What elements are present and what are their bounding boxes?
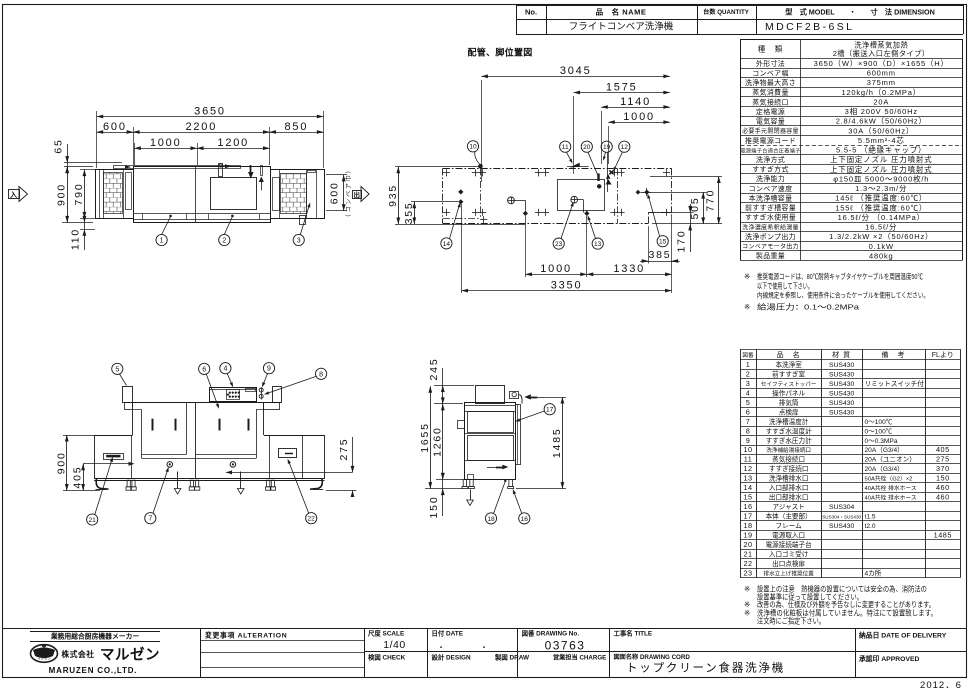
svg-text:20: 20 <box>743 540 752 549</box>
plan view: balloon 15 <box>647 194 668 247</box>
svg-text:電源接続端子台: 電源接続端子台 <box>766 540 813 549</box>
top view: balloon 1 <box>156 215 172 246</box>
svg-text:1330: 1330 <box>613 263 645 275</box>
svg-text:40A共栓 排水ホース: 40A共栓 排水ホース <box>865 494 917 502</box>
front elevation: balloon 7 <box>145 467 169 524</box>
top view: dimensions 600 2200 850 <box>97 121 324 165</box>
plan view: drain/utility marks <box>458 188 651 216</box>
svg-text:電源取入口: 電源取入口 <box>772 530 805 539</box>
svg-text:蒸気消費量: 蒸気消費量 <box>752 88 789 97</box>
svg-text:11: 11 <box>562 144 569 151</box>
side view: balloon 17 <box>515 404 555 422</box>
plan view: dimension 1000 top <box>608 111 670 164</box>
svg-text:9: 9 <box>746 436 751 445</box>
svg-text:製図 DRAW: 製図 DRAW <box>494 652 530 661</box>
svg-text:MARUZEN CO.,LTD.: MARUZEN CO.,LTD. <box>49 666 138 675</box>
svg-text:洗浄方式: 洗浄方式 <box>756 155 785 164</box>
svg-text:SUS304: SUS304 <box>829 504 855 511</box>
front elevation: balloon 4 <box>220 363 233 388</box>
svg-text:3: 3 <box>297 238 301 245</box>
svg-text:355: 355 <box>403 201 415 224</box>
svg-text:洗浄槽温度計: 洗浄槽温度計 <box>769 417 809 426</box>
svg-text:21: 21 <box>89 517 97 524</box>
svg-text:設計 DESIGN: 設計 DESIGN <box>432 652 471 661</box>
svg-text:18: 18 <box>743 521 752 530</box>
svg-text:8: 8 <box>746 426 751 435</box>
svg-text:13: 13 <box>743 474 752 483</box>
svg-text:6: 6 <box>746 407 751 416</box>
svg-text:5: 5 <box>115 366 119 373</box>
svg-text:20A（G3/4）: 20A（G3/4） <box>865 446 904 454</box>
front elevation: drain arrows <box>174 472 244 495</box>
side view: steam inlet arrow <box>524 394 544 399</box>
svg-text:入口部排水口: 入口部排水口 <box>769 483 809 492</box>
svg-text:1485: 1485 <box>934 530 952 539</box>
plan view: balloon 23 <box>553 202 573 250</box>
svg-text:（コンベア巾）: （コンベア巾） <box>345 166 353 221</box>
svg-text:3350: 3350 <box>551 279 583 291</box>
svg-text:3相 200V 50/60Hz: 3相 200V 50/60Hz <box>845 106 918 116</box>
svg-text:11: 11 <box>744 455 753 464</box>
svg-text:図番: 図番 <box>742 352 754 359</box>
top view: dimension 3650 <box>97 105 324 168</box>
svg-text:変更事項 ALTERATION: 変更事項 ALTERATION <box>205 630 287 639</box>
svg-text:145ℓ （推奨温度:60℃）: 145ℓ （推奨温度:60℃） <box>835 193 927 203</box>
svg-text:承認印 APPROVED: 承認印 APPROVED <box>859 654 920 663</box>
plan view: anchor cross marks <box>443 169 670 223</box>
front elevation: legs and feet <box>96 479 324 490</box>
svg-text:t1.5: t1.5 <box>865 514 876 521</box>
svg-text:注文時にご指定下さい。: 注文時にご指定下さい。 <box>757 617 825 626</box>
svg-text:14: 14 <box>743 483 752 492</box>
svg-text:1.3/2.2kW ×2（50/60Hz）: 1.3/2.2kW ×2（50/60Hz） <box>829 232 933 241</box>
svg-text:1: 1 <box>160 238 164 245</box>
svg-text:03763: 03763 <box>545 639 586 653</box>
svg-text:コンベアモータ出力: コンベアモータ出力 <box>742 243 799 251</box>
plan view: balloon 19 <box>601 141 612 192</box>
svg-text:0〜100℃: 0〜100℃ <box>865 427 893 435</box>
plan view: balloon 20 <box>581 141 598 176</box>
plan view: right dims 770 505 170 <box>650 177 722 253</box>
plan view: left dims 935 355 <box>387 167 525 225</box>
svg-text:5.5mm²-4芯: 5.5mm²-4芯 <box>858 135 905 145</box>
svg-text:出: 出 <box>353 190 360 199</box>
front elevation: inlet table <box>94 435 132 479</box>
svg-text:23: 23 <box>743 568 752 577</box>
svg-text:30A（50/60Hz）: 30A（50/60Hz） <box>848 126 914 135</box>
svg-text:品 名: 品 名 <box>777 350 801 359</box>
svg-text:型 式 MODEL ・ 寸 法 DIMENSION: 型 式 MODEL ・ 寸 法 DIMENSION <box>785 8 935 17</box>
svg-text:洗浄ポンプ出力: 洗浄ポンプ出力 <box>745 232 796 241</box>
svg-text:22: 22 <box>743 559 752 568</box>
svg-text:16.5ℓ/分 （0.14MPa）: 16.5ℓ/分 （0.14MPa） <box>838 213 925 222</box>
svg-text:フライトコンベア洗浄機: フライトコンベア洗浄機 <box>569 21 674 33</box>
svg-text:110: 110 <box>70 228 82 250</box>
svg-text:385: 385 <box>648 249 671 261</box>
svg-text:1000: 1000 <box>150 137 182 149</box>
front elevation: balloon 6 <box>199 363 219 409</box>
svg-text:t2.0: t2.0 <box>865 523 876 530</box>
plan view: chain-line outline <box>443 168 672 223</box>
front elevation: base frame <box>94 435 324 481</box>
svg-text:すすぎ水圧力計: すすぎ水圧力計 <box>766 436 813 445</box>
svg-text:600mm: 600mm <box>867 69 896 78</box>
svg-text:15: 15 <box>743 493 752 502</box>
svg-text:入口ゴミ受け: 入口ゴミ受け <box>769 549 809 558</box>
svg-text:SUS430: SUS430 <box>829 400 855 407</box>
svg-text:※: ※ <box>744 272 750 281</box>
svg-text:定格電源: 定格電源 <box>756 107 785 116</box>
svg-text:納品日 DATE OF DELIVERY: 納品日 DATE OF DELIVERY <box>859 631 947 640</box>
svg-text:935: 935 <box>387 184 399 207</box>
svg-text:20A（G3/4）: 20A（G3/4） <box>865 465 904 473</box>
svg-text:出口点検扉: 出口点検扉 <box>772 559 805 568</box>
svg-text:推奨電源コード: 推奨電源コード <box>745 136 796 145</box>
svg-text:12: 12 <box>743 464 752 473</box>
svg-text:1000: 1000 <box>623 111 655 123</box>
svg-text:株式会社: 株式会社 <box>61 649 94 659</box>
svg-text:以下で使用して下さい。: 以下で使用して下さい。 <box>757 281 813 290</box>
plan view: steam inlet cluster <box>478 163 613 189</box>
svg-text:20: 20 <box>583 144 591 151</box>
svg-text:本洗浄槽容量: 本洗浄槽容量 <box>749 193 793 202</box>
svg-text:19: 19 <box>743 530 752 539</box>
svg-text:16: 16 <box>521 516 529 523</box>
svg-text:770: 770 <box>705 189 717 212</box>
svg-text:※: ※ <box>744 609 750 618</box>
svg-text:1: 1 <box>746 360 751 369</box>
svg-text:900: 900 <box>56 183 68 206</box>
svg-text:405: 405 <box>72 466 84 489</box>
svg-text:9: 9 <box>267 366 271 373</box>
svg-text:850: 850 <box>285 121 309 133</box>
svg-text:上下固定ノズル 圧力噴射式: 上下固定ノズル 圧力噴射式 <box>830 154 932 164</box>
svg-text:すすぎ水温度計: すすぎ水温度計 <box>766 426 813 435</box>
svg-text:SUS430: SUS430 <box>829 362 855 369</box>
front elevation: reference line 275 and arrows <box>83 462 352 475</box>
svg-text:操作パネル: 操作パネル <box>772 388 805 397</box>
svg-text:MDCF2B-6SL: MDCF2B-6SL <box>765 21 854 33</box>
header table <box>516 5 964 35</box>
parts list table <box>740 349 961 577</box>
svg-text:3650: 3650 <box>194 105 226 117</box>
side view: drain arrow <box>467 490 474 506</box>
side view: body outline <box>458 386 516 480</box>
svg-text:備 考: 備 考 <box>882 350 906 359</box>
svg-text:SUS430: SUS430 <box>829 409 855 416</box>
svg-text:前すすぎ室: 前すすぎ室 <box>772 369 805 378</box>
svg-text:コンベア幅: コンベア幅 <box>752 68 789 77</box>
svg-text:17: 17 <box>743 512 752 521</box>
svg-text:セイフティストッパー: セイフティストッパー <box>761 381 817 388</box>
svg-text:20A: 20A <box>873 97 889 106</box>
svg-text:3045: 3045 <box>560 65 592 77</box>
svg-text:3: 3 <box>746 379 751 388</box>
svg-text:23: 23 <box>555 241 563 248</box>
svg-text:図番 DRAWING No.: 図番 DRAWING No. <box>522 628 580 637</box>
svg-text:種 類: 種 類 <box>758 43 784 53</box>
svg-text:蒸気接続口: 蒸気接続口 <box>752 97 789 106</box>
svg-text:5: 5 <box>746 398 751 407</box>
svg-text:SUS430: SUS430 <box>829 390 855 397</box>
svg-text:1260: 1260 <box>431 426 443 457</box>
front elevation: outlet table <box>264 435 325 479</box>
svg-text:405: 405 <box>936 445 950 454</box>
svg-text:275: 275 <box>338 438 350 461</box>
front elevation: balloon 8 <box>264 368 327 394</box>
svg-text:図面名称 DRAWING CORD: 図面名称 DRAWING CORD <box>614 653 691 661</box>
svg-text:2: 2 <box>222 238 226 245</box>
svg-text:コンベア速度: コンベア速度 <box>749 184 793 193</box>
front elevation: exhaust stack right <box>273 387 282 403</box>
svg-text:6: 6 <box>202 366 206 373</box>
maruzen company logo <box>30 631 160 675</box>
side view: legs <box>462 479 514 488</box>
front elevation: control panel <box>210 388 257 402</box>
svg-text:17: 17 <box>546 407 554 414</box>
title block <box>3 628 967 677</box>
svg-text:150: 150 <box>936 474 950 483</box>
svg-text:7: 7 <box>148 516 152 523</box>
top view: outlet direction arrow <box>353 187 370 202</box>
svg-text:洗浄能力: 洗浄能力 <box>756 174 785 183</box>
svg-text:4カ所: 4カ所 <box>865 568 882 577</box>
svg-text:14: 14 <box>443 241 451 248</box>
svg-text:3650（W）×900（D）×1655（H）: 3650（W）×900（D）×1655（H） <box>814 59 949 68</box>
svg-text:370: 370 <box>936 464 950 473</box>
plan view: balloon 11 <box>560 141 573 163</box>
side view: balloon 16 <box>513 489 530 524</box>
svg-text:1200: 1200 <box>217 137 249 149</box>
side view: power inlet arrow <box>487 465 508 470</box>
svg-text:トップクリーン食器洗浄機: トップクリーン食器洗浄機 <box>626 661 785 675</box>
svg-text:すすぎ接続口: すすぎ接続口 <box>769 464 809 473</box>
svg-text:120kg/h（0.2MPa）: 120kg/h（0.2MPa） <box>841 88 921 97</box>
svg-text:1485: 1485 <box>551 428 563 459</box>
top view: balloon 3 <box>293 202 310 245</box>
svg-text:すすぎ水使用量: すすぎ水使用量 <box>745 213 796 222</box>
svg-text:16.5ℓ/分: 16.5ℓ/分 <box>865 223 897 232</box>
svg-text:600: 600 <box>329 181 341 204</box>
svg-text:10: 10 <box>743 445 752 454</box>
svg-text:φ150皿 5000〜9000枚/h: φ150皿 5000〜9000枚/h <box>833 173 929 183</box>
svg-text:業務用総合厨房機器メーカー: 業務用総合厨房機器メーカー <box>50 631 140 640</box>
svg-text:460: 460 <box>936 493 950 502</box>
svg-text:SUS430: SUS430 <box>829 523 855 530</box>
plan view: bottom dims 385 1000 1330 3350 <box>462 204 680 293</box>
svg-text:2012．6: 2012．6 <box>920 680 962 691</box>
top view: balloon 2 <box>219 215 234 246</box>
svg-text:1140: 1140 <box>620 96 651 108</box>
svg-text:245: 245 <box>428 358 440 381</box>
svg-text:155ℓ （推奨温度:60℃）: 155ℓ （推奨温度:60℃） <box>835 202 927 212</box>
svg-text:配管、脚位置図: 配管、脚位置図 <box>467 47 532 58</box>
svg-text:入: 入 <box>9 191 17 199</box>
svg-text:台数 QUANTITY: 台数 QUANTITY <box>703 8 750 16</box>
svg-text:上下固定ノズル 圧力噴射式: 上下固定ノズル 圧力噴射式 <box>830 164 932 174</box>
side view: dims 245 1655 1260 150 1485 <box>419 358 566 519</box>
side view: safety stopper rail <box>510 392 523 465</box>
svg-text:・: ・ <box>437 643 445 652</box>
svg-text:8: 8 <box>319 371 323 378</box>
front elevation: exhaust stack left <box>123 387 133 403</box>
svg-text:600: 600 <box>103 121 127 133</box>
svg-text:洗浄物最大高さ: 洗浄物最大高さ <box>745 78 796 87</box>
svg-text:0〜100℃: 0〜100℃ <box>865 418 893 426</box>
plan view: balloon 10 <box>467 141 479 164</box>
svg-text:40A共栓 排水ホース: 40A共栓 排水ホース <box>865 484 917 492</box>
front elevation: wash chambers <box>125 403 280 479</box>
top view: conveyor width dim 600 <box>326 166 353 221</box>
svg-text:16: 16 <box>743 502 752 511</box>
svg-text:排水立上げ推奨位置: 排水立上げ推奨位置 <box>763 569 814 577</box>
svg-text:65: 65 <box>53 138 65 153</box>
svg-text:2: 2 <box>746 369 751 378</box>
svg-text:1655: 1655 <box>419 422 431 453</box>
notes under parts table <box>744 585 937 626</box>
svg-text:SUS430: SUS430 <box>829 371 855 378</box>
plan view: balloon 12 <box>613 141 630 171</box>
svg-text:5.5-5 （絶縁キャップ）: 5.5-5 （絶縁キャップ） <box>836 145 926 155</box>
svg-text:4: 4 <box>223 366 227 373</box>
svg-text:洗浄濃度希釈給湯量: 洗浄濃度希釈給湯量 <box>742 223 799 231</box>
svg-text:電気容量: 電気容量 <box>756 117 785 126</box>
svg-text:マルゼン: マルゼン <box>100 646 160 664</box>
front elevation: rinse sensor valves <box>259 387 263 399</box>
svg-text:900: 900 <box>55 451 67 474</box>
svg-text:21: 21 <box>743 549 752 558</box>
svg-text:1.3〜2.3m/分: 1.3〜2.3m/分 <box>855 184 907 193</box>
svg-text:15: 15 <box>659 239 667 246</box>
svg-text:洗浄槽蒸気加熱: 洗浄槽蒸気加熱 <box>854 40 908 49</box>
svg-text:蒸気接続口: 蒸気接続口 <box>772 455 805 464</box>
notes under spec table <box>744 272 929 311</box>
svg-text:480kg: 480kg <box>869 251 893 260</box>
front elevation: left dims 900 405 <box>55 435 100 491</box>
svg-text:給湯圧力：0.1〜0.2MPa: 給湯圧力：0.1〜0.2MPa <box>757 302 860 311</box>
svg-text:洗浄槽排水口: 洗浄槽排水口 <box>769 474 809 483</box>
svg-text:790: 790 <box>73 183 85 206</box>
svg-text:リミットスイッチ付: リミットスイッチ付 <box>865 379 925 388</box>
plan view: dimension 3045 <box>481 65 670 182</box>
top view: dimensions 1000 1200 <box>134 137 269 165</box>
svg-text:内線規定を参照し、使用条件に合ったケーブルを使用してください: 内線規定を参照し、使用条件に合ったケーブルを使用してください。 <box>757 290 929 299</box>
svg-text:前すすぎ槽容量: 前すすぎ槽容量 <box>745 203 796 212</box>
svg-text:材 質: 材 質 <box>832 350 851 359</box>
svg-text:・: ・ <box>480 643 488 652</box>
svg-text:1/40: 1/40 <box>383 639 405 651</box>
svg-text:12: 12 <box>621 144 629 151</box>
plan view: balloon 14 <box>441 202 461 249</box>
svg-text:2200: 2200 <box>185 121 217 133</box>
svg-text:275: 275 <box>936 455 950 464</box>
svg-text:営業担当 CHARGE: 営業担当 CHARGE <box>553 653 606 661</box>
svg-text:0〜0.3MPa: 0〜0.3MPa <box>865 438 898 445</box>
side view: balloon 18 <box>485 480 506 524</box>
svg-text:FLより: FLより <box>932 351 954 359</box>
svg-text:排気筒: 排気筒 <box>779 398 799 407</box>
svg-text:460: 460 <box>936 483 950 492</box>
svg-text:4: 4 <box>746 388 751 397</box>
svg-text:日付 DATE: 日付 DATE <box>432 628 464 637</box>
svg-text:※: ※ <box>744 585 750 594</box>
svg-text:170: 170 <box>675 230 687 253</box>
svg-text:点検扉: 点検扉 <box>779 407 799 416</box>
svg-text:工事名 TITLE: 工事名 TITLE <box>614 628 653 637</box>
svg-text:18: 18 <box>487 516 495 523</box>
svg-text:10: 10 <box>469 144 477 151</box>
svg-text:50A共栓（G2）×2: 50A共栓（G2）×2 <box>865 475 913 483</box>
front elevation: balloon 22 <box>288 459 317 524</box>
svg-text:尺度 SCALE: 尺度 SCALE <box>368 628 405 637</box>
svg-text:必要手元開閉器容量: 必要手元開閉器容量 <box>742 127 799 135</box>
svg-text:0.1kW: 0.1kW <box>869 242 894 251</box>
svg-text:2.8/4.6kW（50/60Hz）: 2.8/4.6kW（50/60Hz） <box>836 117 927 126</box>
svg-text:本洗浄室: 本洗浄室 <box>775 360 802 369</box>
svg-text:SUS430: SUS430 <box>829 381 855 388</box>
svg-text:※: ※ <box>744 302 750 311</box>
svg-text:本体（主要部）: 本体（主要部） <box>766 512 812 521</box>
front elevation: balloon 9 <box>262 363 275 388</box>
svg-text:22: 22 <box>308 516 316 523</box>
svg-text:19: 19 <box>603 144 611 151</box>
front elevation: balloon 21 <box>87 457 113 525</box>
front elevation: balloon 5 <box>112 363 127 385</box>
svg-text:7: 7 <box>746 417 751 426</box>
svg-text:フレーム: フレーム <box>776 522 803 530</box>
front elevation: right dim 275 <box>326 437 357 497</box>
svg-text:洗浄補給湯接続口: 洗浄補給湯接続口 <box>766 446 811 454</box>
svg-text:電源端子台適合圧着端子: 電源端子台適合圧着端子 <box>740 146 800 154</box>
svg-text:すすぎ方式: すすぎ方式 <box>752 165 789 174</box>
svg-text:13: 13 <box>594 241 602 248</box>
svg-text:375mm: 375mm <box>867 78 896 87</box>
svg-text:No.: No. <box>525 8 537 17</box>
svg-text:SUS304・SUS430: SUS304・SUS430 <box>822 515 861 520</box>
svg-text:150: 150 <box>428 496 440 519</box>
svg-text:出口部排水口: 出口部排水口 <box>769 493 809 502</box>
top view: left dims 65 900 790 110 <box>53 138 123 250</box>
svg-text:アジャスト: アジャスト <box>772 503 804 511</box>
plan view: dimension 1140 <box>601 96 670 164</box>
specification table <box>740 39 962 261</box>
svg-text:検図 CHECK: 検図 CHECK <box>368 652 406 661</box>
plan view: dimension 1575 <box>574 81 670 174</box>
svg-text:マルゼン: マルゼン <box>37 656 51 661</box>
svg-text:製品重量: 製品重量 <box>756 251 785 260</box>
svg-text:推奨電源コードは、80℃耐熱キャブタイヤケーブルを周囲温度5: 推奨電源コードは、80℃耐熱キャブタイヤケーブルを周囲温度50℃ <box>757 272 923 281</box>
svg-text:外形寸法: 外形寸法 <box>756 59 785 68</box>
svg-text:2槽（搬送入口左側タイプ）: 2槽（搬送入口左側タイプ） <box>833 49 930 58</box>
svg-text:品 名 NAME: 品 名 NAME <box>596 7 647 17</box>
svg-text:1575: 1575 <box>606 81 638 93</box>
top view: machine body outline <box>96 164 325 225</box>
top view: inlet direction arrow <box>9 187 28 202</box>
svg-text:1000: 1000 <box>540 263 572 275</box>
svg-text:20A（ユニオン）: 20A（ユニオン） <box>865 456 916 464</box>
plan view: balloon 13 <box>588 215 604 249</box>
